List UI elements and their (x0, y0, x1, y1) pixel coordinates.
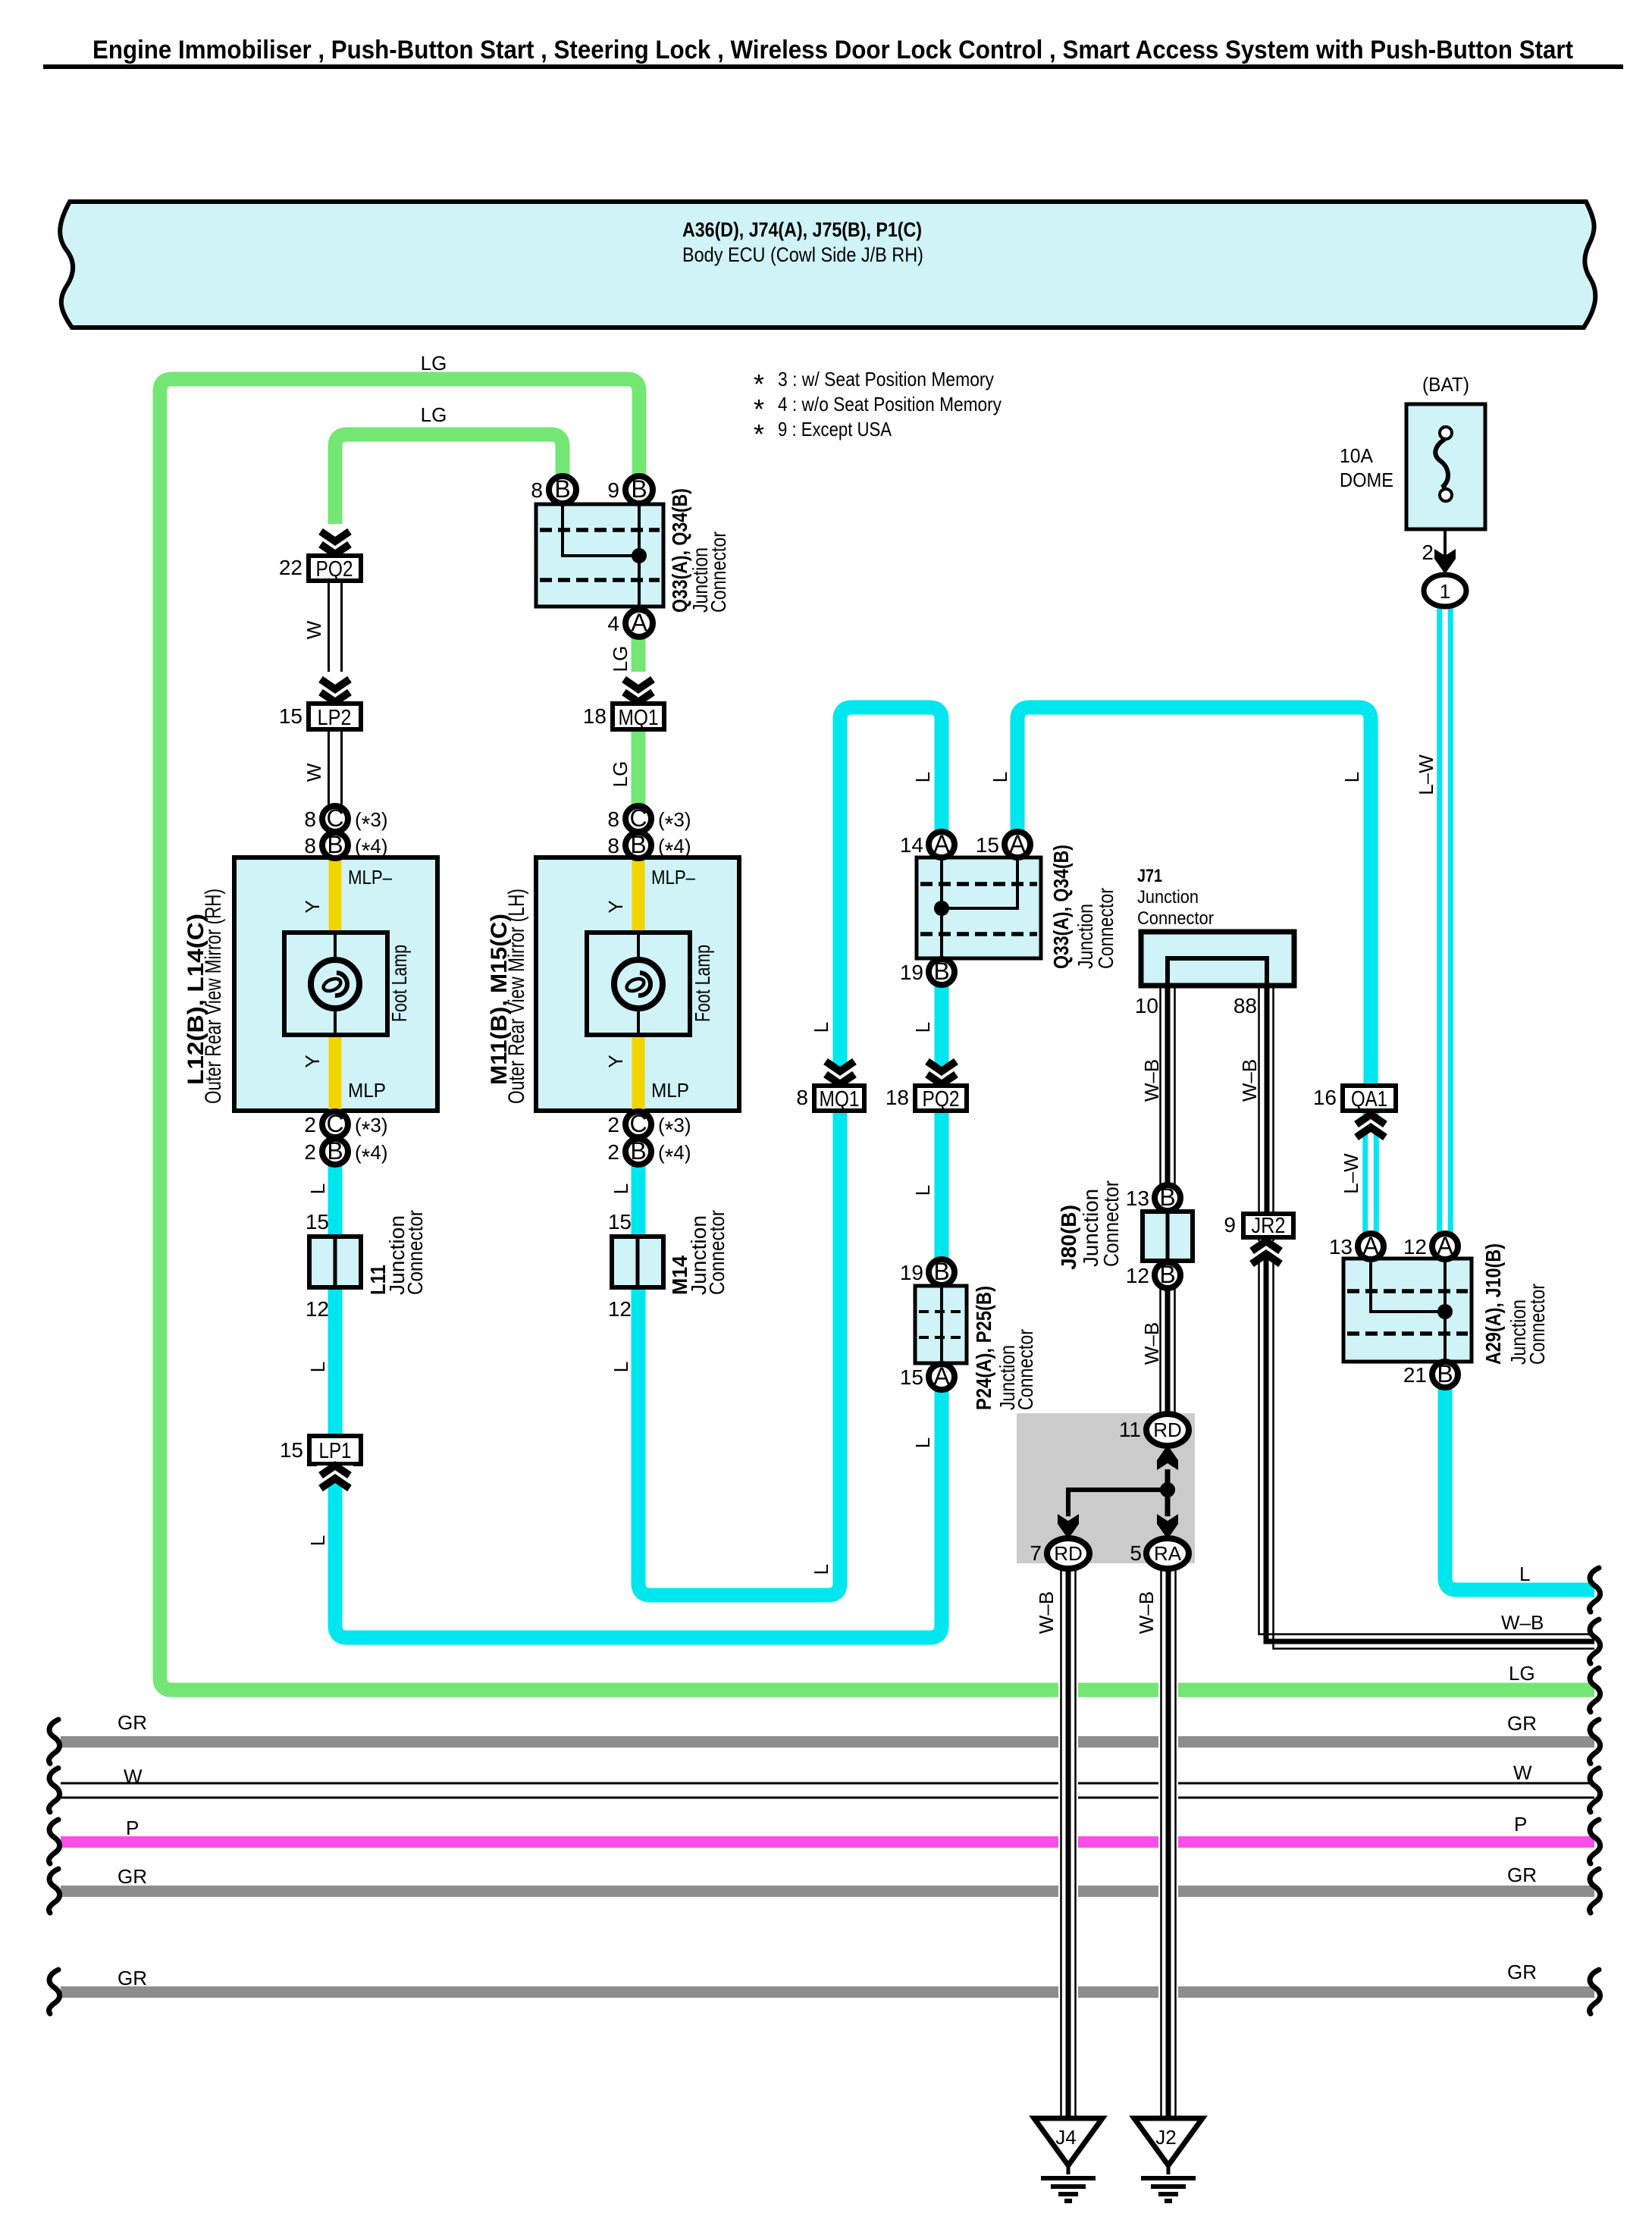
svg-text:LG: LG (421, 403, 447, 426)
svg-text:12: 12 (306, 1297, 329, 1321)
svg-text:LG: LG (421, 352, 447, 375)
svg-text:GR: GR (118, 1865, 147, 1888)
svg-text:W–B: W–B (1501, 1611, 1544, 1634)
svg-text:P24(A), P25(B): P24(A), P25(B) (972, 1286, 995, 1410)
svg-text:(BAT): (BAT) (1422, 373, 1469, 396)
svg-text:B: B (327, 1137, 343, 1165)
svg-text:4 : w/o Seat Position Memory: 4 : w/o Seat Position Memory (778, 393, 1002, 415)
svg-text:(*3): (*3) (658, 808, 691, 837)
svg-text:L: L (610, 1183, 632, 1194)
svg-text:(*4): (*4) (355, 1141, 387, 1170)
svg-text:88: 88 (1234, 994, 1257, 1017)
svg-text:P: P (1514, 1813, 1527, 1836)
svg-text:18: 18 (583, 704, 607, 728)
svg-text:Connector: Connector (1137, 908, 1214, 929)
svg-text:L: L (911, 1185, 934, 1196)
svg-text:5: 5 (1130, 1541, 1142, 1565)
svg-text:Foot Lamp: Foot Lamp (691, 945, 714, 1022)
svg-text:B: B (1159, 1261, 1175, 1288)
svg-text:LP2: LP2 (318, 706, 352, 730)
svg-text:11: 11 (1119, 1418, 1141, 1441)
svg-text:Y: Y (604, 1055, 627, 1067)
svg-text:L: L (911, 772, 934, 782)
svg-text:B: B (327, 831, 343, 858)
svg-text:GR: GR (1507, 1712, 1537, 1735)
svg-text:B: B (630, 831, 646, 858)
svg-text:L–W: L–W (1340, 1153, 1362, 1194)
svg-text:22: 22 (279, 556, 303, 579)
svg-text:18: 18 (886, 1086, 909, 1109)
svg-text:12: 12 (1403, 1235, 1427, 1259)
svg-text:A: A (1362, 1232, 1379, 1259)
svg-text:*: * (754, 419, 764, 450)
svg-text:8: 8 (607, 807, 619, 831)
svg-text:Connector: Connector (403, 1210, 427, 1295)
svg-text:13: 13 (1329, 1235, 1353, 1259)
svg-text:C: C (326, 804, 343, 832)
svg-text:W: W (1513, 1761, 1532, 1784)
svg-text:15: 15 (900, 1365, 923, 1389)
svg-text:2: 2 (607, 1113, 619, 1136)
svg-text:(*3): (*3) (355, 1114, 387, 1143)
svg-text:9: 9 (1224, 1213, 1236, 1237)
svg-text:B: B (1159, 1183, 1175, 1211)
svg-text:8: 8 (607, 834, 619, 857)
svg-text:3 : w/ Seat Position Memory: 3 : w/ Seat Position Memory (778, 368, 994, 390)
svg-text:Engine Immobiliser , Push-Butt: Engine Immobiliser , Push-Button Start ,… (92, 36, 1573, 64)
svg-text:J80(B): J80(B) (1057, 1205, 1080, 1270)
svg-text:Connector: Connector (1014, 1329, 1037, 1410)
svg-text:10: 10 (1135, 994, 1158, 1017)
svg-text:LG: LG (609, 646, 632, 672)
svg-text:B: B (631, 475, 647, 503)
svg-text:8: 8 (531, 478, 543, 502)
svg-text:A: A (1437, 1232, 1453, 1259)
svg-text:10A: 10A (1340, 444, 1374, 467)
svg-text:GR: GR (1507, 1961, 1537, 1983)
svg-text:(*3): (*3) (658, 1114, 691, 1143)
svg-text:MLP–: MLP– (348, 866, 392, 889)
svg-text:12: 12 (1126, 1264, 1149, 1287)
svg-text:Body ECU (Cowl Side J/B RH): Body ECU (Cowl Side J/B RH) (682, 243, 923, 266)
svg-text:14: 14 (900, 833, 923, 857)
svg-text:B: B (554, 475, 570, 503)
svg-text:Y: Y (604, 900, 627, 913)
svg-text:19: 19 (900, 961, 923, 984)
svg-text:L: L (306, 1362, 329, 1372)
svg-text:C: C (629, 1110, 647, 1137)
svg-text:L: L (911, 1022, 934, 1033)
svg-text:2: 2 (304, 1140, 316, 1164)
svg-text:Connector: Connector (707, 531, 730, 613)
svg-text:JR2: JR2 (1252, 1214, 1286, 1238)
svg-text:B: B (933, 1258, 949, 1285)
svg-text:19: 19 (900, 1261, 923, 1284)
svg-text:L: L (810, 1022, 832, 1033)
svg-text:RA: RA (1154, 1542, 1182, 1565)
svg-text:B: B (630, 1137, 646, 1165)
svg-text:LP1: LP1 (319, 1439, 352, 1463)
svg-text:9: 9 (607, 478, 619, 502)
svg-text:J4: J4 (1055, 2126, 1076, 2149)
svg-text:DOME: DOME (1340, 469, 1393, 491)
svg-text:Y: Y (301, 900, 324, 913)
svg-text:Outer Rear View Mirror (LH): Outer Rear View Mirror (LH) (504, 889, 529, 1104)
svg-text:LG: LG (609, 761, 632, 788)
svg-text:15: 15 (280, 1438, 303, 1462)
svg-text:Junction: Junction (1137, 887, 1199, 908)
svg-text:W: W (303, 620, 325, 639)
svg-text:Foot Lamp: Foot Lamp (387, 945, 411, 1022)
svg-text:Y: Y (301, 1055, 324, 1067)
svg-text:L: L (989, 772, 1011, 782)
svg-text:MQ1: MQ1 (619, 706, 659, 730)
svg-text:L–W: L–W (1415, 754, 1437, 795)
svg-text:8: 8 (304, 834, 316, 857)
svg-text:W: W (124, 1765, 143, 1788)
svg-text:Q33(A), Q34(B): Q33(A), Q34(B) (1049, 845, 1073, 969)
svg-text:8: 8 (796, 1086, 808, 1109)
svg-text:15: 15 (306, 1210, 329, 1234)
svg-text:A: A (1009, 830, 1026, 857)
svg-text:L: L (911, 1437, 934, 1448)
svg-text:A29(A), J10(B): A29(A), J10(B) (1481, 1243, 1505, 1365)
svg-text:A: A (631, 609, 647, 636)
svg-text:Connector: Connector (1099, 1180, 1123, 1267)
svg-text:15: 15 (976, 833, 999, 857)
svg-text:RD: RD (1054, 1542, 1083, 1565)
svg-text:L: L (306, 1183, 329, 1194)
svg-text:16: 16 (1313, 1086, 1337, 1109)
svg-text:12: 12 (608, 1297, 632, 1321)
svg-text:MLP: MLP (651, 1079, 689, 1102)
svg-text:RD: RD (1153, 1419, 1182, 1441)
svg-text:Connector: Connector (1094, 888, 1118, 969)
svg-text:P: P (126, 1817, 139, 1839)
svg-text:GR: GR (118, 1711, 147, 1734)
svg-text:2: 2 (607, 1140, 619, 1164)
svg-text:Connector: Connector (1525, 1284, 1549, 1365)
svg-text:2: 2 (304, 1113, 316, 1136)
svg-text:MQ1: MQ1 (820, 1087, 860, 1111)
svg-text:LG: LG (1509, 1662, 1535, 1685)
svg-text:W–B: W–B (1035, 1591, 1058, 1634)
svg-text:(*3): (*3) (355, 808, 387, 837)
svg-text:L: L (810, 1564, 832, 1575)
svg-text:A: A (933, 830, 950, 857)
svg-text:A: A (933, 1362, 950, 1390)
svg-text:J71: J71 (1137, 866, 1162, 886)
svg-text:W: W (303, 763, 325, 782)
svg-text:QA1: QA1 (1351, 1087, 1387, 1111)
svg-text:B: B (1437, 1360, 1453, 1387)
svg-text:L: L (1340, 772, 1363, 782)
svg-text:L: L (610, 1362, 632, 1372)
svg-text:8: 8 (304, 807, 316, 831)
svg-text:7: 7 (1030, 1541, 1042, 1565)
svg-text:GR: GR (1507, 1864, 1537, 1886)
svg-text:1: 1 (1440, 580, 1450, 603)
svg-text:MLP–: MLP– (651, 866, 695, 889)
svg-text:9 : Except USA: 9 : Except USA (778, 418, 892, 440)
svg-text:W–B: W–B (1238, 1059, 1261, 1102)
svg-text:Connector: Connector (705, 1210, 729, 1295)
svg-text:15: 15 (279, 704, 303, 728)
svg-text:15: 15 (608, 1210, 632, 1234)
svg-text:2: 2 (1422, 541, 1434, 564)
svg-text:W–B: W–B (1140, 1322, 1163, 1365)
svg-text:MLP: MLP (348, 1079, 386, 1102)
svg-text:W–B: W–B (1135, 1591, 1158, 1634)
svg-text:PQ2: PQ2 (316, 557, 353, 582)
svg-text:L: L (1519, 1563, 1530, 1585)
svg-text:(*4): (*4) (658, 1141, 691, 1170)
svg-text:21: 21 (1403, 1363, 1427, 1387)
svg-text:A36(D), J74(A), J75(B), P1(C): A36(D), J74(A), J75(B), P1(C) (682, 218, 922, 241)
svg-text:W–B: W–B (1140, 1059, 1163, 1102)
svg-text:C: C (326, 1110, 343, 1137)
svg-text:J2: J2 (1155, 2126, 1176, 2149)
svg-text:13: 13 (1126, 1187, 1149, 1210)
svg-text:L: L (306, 1535, 329, 1546)
svg-text:C: C (629, 804, 647, 832)
svg-text:Outer Rear View Mirror (RH): Outer Rear View Mirror (RH) (201, 889, 226, 1104)
svg-text:GR: GR (118, 1967, 147, 1989)
svg-text:PQ2: PQ2 (923, 1087, 960, 1111)
svg-text:4: 4 (607, 612, 619, 635)
svg-text:B: B (933, 958, 949, 985)
